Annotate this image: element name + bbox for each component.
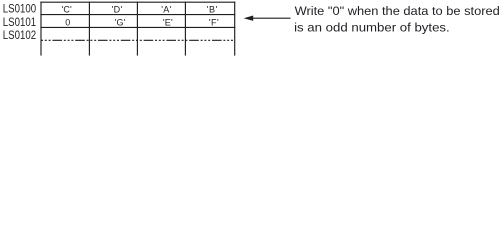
svg-text:'E': 'E': [163, 17, 173, 27]
callout arrowhead: [244, 16, 254, 21]
svg-text:'C': 'C': [62, 4, 72, 14]
svg-text:'D': 'D': [112, 4, 123, 14]
svg-text:'G': 'G': [115, 17, 126, 27]
table row line 2 (LS0101/LS0102): [40, 26, 235, 28]
table top border: [40, 1, 235, 3]
table row line 1 (LS0100/LS0101): [40, 14, 235, 16]
svg-text:'A': 'A': [161, 4, 171, 14]
table column line 2: [136, 2, 138, 56]
table left border: [40, 2, 42, 56]
svg-text:LS0100: LS0100: [3, 4, 36, 16]
continuation dash-dot line: [41, 39, 235, 41]
svg-text:is an odd number of bytes.: is an odd number of bytes.: [294, 21, 450, 35]
table right border: [234, 2, 236, 56]
table column line 3: [184, 2, 186, 56]
svg-text:LS0102: LS0102: [3, 30, 36, 42]
svg-text:Write "0" when the data to be: Write "0" when the data to be stored: [295, 4, 500, 18]
svg-text:'B': 'B': [207, 4, 218, 14]
svg-text:'F': 'F': [209, 17, 219, 27]
table column line 1: [88, 2, 90, 56]
callout arrow shaft: [251, 17, 291, 19]
svg-text:0: 0: [65, 17, 70, 27]
svg-text:LS0101: LS0101: [3, 17, 36, 29]
